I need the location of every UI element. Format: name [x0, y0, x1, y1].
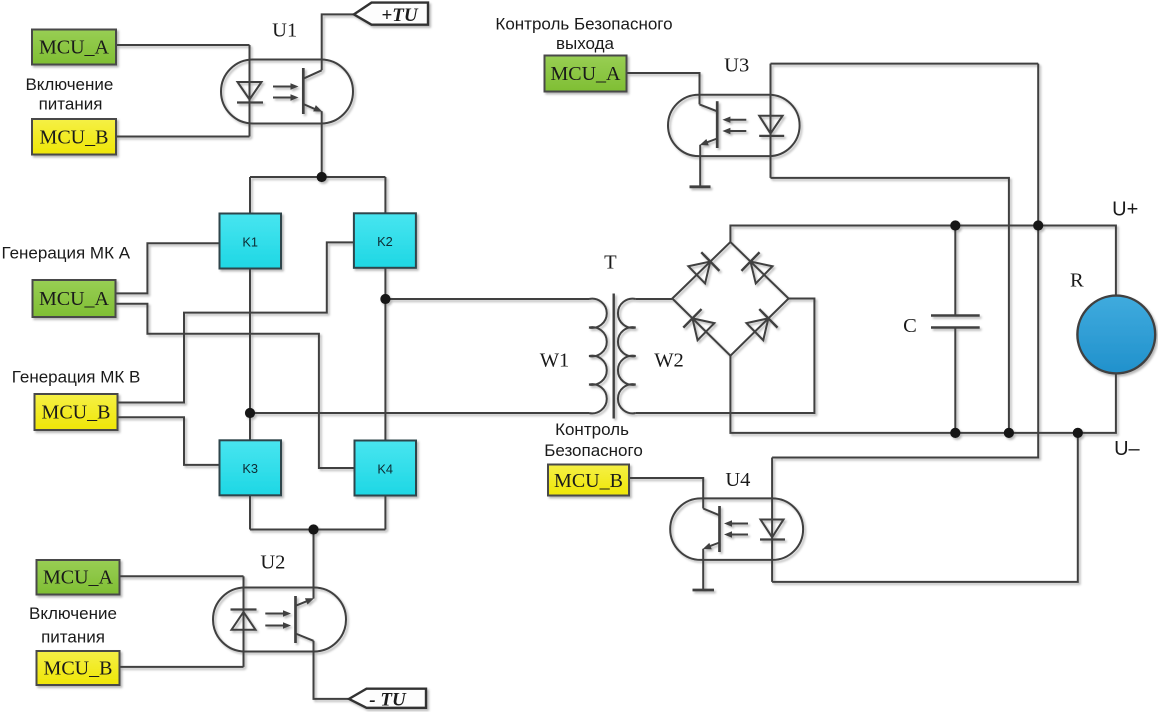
svg-text:питания: питания: [39, 95, 103, 114]
wire U3 top sense from U+: [771, 63, 1039, 65]
switch K1: [220, 214, 282, 269]
arrowhead U3 light 2: [722, 128, 730, 134]
diode U1 LED cathode bar: [237, 101, 263, 103]
op-amp U4 optocoupler body: [670, 498, 803, 560]
arrowhead U1 light 2: [291, 94, 299, 100]
arrowhead U4 light 1: [724, 520, 732, 526]
svg-text:C: C: [903, 315, 917, 337]
arrowhead U2 light 1: [283, 610, 291, 616]
svg-text:MCU_A: MCU_A: [39, 288, 110, 310]
svg-text:U+: U+: [1112, 199, 1138, 221]
svg-text:Контроль Безопасного: Контроль Безопасного: [495, 15, 672, 34]
svg-text:U–: U–: [1114, 438, 1140, 460]
diode U2 LED: [232, 612, 256, 630]
svg-text:Включение: Включение: [25, 75, 113, 94]
op-amp U2 optocoupler body: [213, 588, 346, 652]
wire K1 to K3 column: [249, 269, 251, 441]
wire U4 emitter to ground: [702, 549, 704, 590]
svg-text:MCU_A: MCU_A: [550, 63, 621, 85]
MCU_B box (U1 enable): [32, 119, 116, 155]
svg-text:U1: U1: [272, 20, 297, 42]
transformer T winding W2: [618, 299, 636, 414]
svg-text:U3: U3: [724, 55, 749, 77]
svg-text:MCU_B: MCU_B: [44, 658, 113, 680]
wire U4 LED cathode to U- rail: [772, 433, 1078, 582]
arrowhead U3 emitter: [698, 139, 708, 148]
transistor U3 emitter: [704, 139, 717, 144]
transistor U1 base bar: [302, 68, 305, 114]
MCU_A box (U1 enable): [32, 30, 116, 65]
wire U1 light arrow 1: [273, 86, 292, 88]
transformer T core: [613, 294, 615, 419]
wire capacitor top lead: [954, 226, 956, 316]
capacitor C bottom plate: [931, 326, 980, 328]
svg-text:W1: W1: [540, 350, 570, 372]
wire bottom rail to U2 emitter: [313, 530, 315, 599]
wire U1 light arrow 2: [273, 97, 292, 99]
wire MCU_B gen to K3 control: [117, 417, 220, 465]
node junction U1 emitter / top rail: [317, 172, 327, 182]
switch K4: [355, 441, 417, 496]
svg-text:T: T: [604, 252, 617, 274]
MCU_A box (U2 enable): [37, 560, 120, 595]
wire U4 light arrow 1: [730, 523, 749, 525]
wire U2 collector to -TU flag: [314, 641, 350, 699]
ground bar U4: [693, 589, 715, 592]
svg-text:выхода: выхода: [556, 34, 615, 53]
svg-text:K3: K3: [242, 461, 258, 476]
MCU_A box (generation A): [33, 280, 116, 317]
resistor R load circle: [1077, 296, 1155, 374]
diode U3 LED: [759, 116, 782, 134]
transistor U1 emitter: [303, 104, 317, 110]
arrowhead U4 light 2: [724, 531, 732, 537]
svg-text:+TU: +TU: [381, 5, 418, 26]
wire U2 light arrow 1: [265, 613, 284, 615]
svg-text:U2: U2: [260, 552, 285, 574]
transistor U2 base bar: [294, 596, 297, 643]
transistor U1 collector: [303, 70, 321, 78]
diode U4 LED: [761, 520, 784, 538]
node -TU flag: [349, 689, 426, 708]
capacitor C top plate: [931, 314, 980, 316]
MCU_B box (U4 sense): [548, 465, 629, 496]
wire U2 LED vertical: [243, 576, 245, 667]
arrowhead U4 emitter: [701, 543, 711, 552]
MCU_A box (U3 sense): [545, 56, 627, 92]
wire U3 emitter to ground: [699, 145, 701, 187]
svg-text:K1: K1: [242, 235, 258, 250]
wire K4 bottom pin: [384, 496, 386, 530]
wire MCU_B to U2 LED cathode: [120, 666, 244, 668]
wire MCU_B to U1 LED cathode: [116, 136, 250, 138]
wire top rail K1-K2: [250, 176, 385, 178]
svg-text:Включение: Включение: [29, 604, 117, 623]
diode U4 LED cathode bar: [760, 538, 785, 540]
node junction U+ rail / capacitor: [950, 220, 960, 230]
wire bottom rail K3-K4: [250, 529, 385, 531]
diode U1 LED: [238, 82, 262, 100]
wire capacitor bottom lead: [954, 328, 956, 433]
diode bridge diamond: [672, 242, 788, 356]
svg-text:R: R: [1070, 270, 1084, 292]
svg-text:MCU_B: MCU_B: [554, 470, 623, 492]
node junction U- rail / U4 return: [1073, 428, 1083, 438]
wire U1 LED vertical: [249, 45, 251, 137]
wire K2-K4 tap to W1 top: [385, 298, 589, 300]
wire U2 light arrow 2: [265, 625, 284, 627]
transistor U3 collector: [700, 104, 718, 111]
wire MCU_A gen to K4 control: [116, 304, 355, 468]
transistor U4 base bar: [718, 506, 721, 552]
wire MCU_A to U1 LED anode: [116, 44, 250, 46]
svg-text:K4: K4: [377, 462, 393, 477]
svg-text:Безопасного: Безопасного: [544, 441, 643, 460]
node junction bottom rail / U2: [308, 524, 318, 534]
wire U3 LED anode vertical: [770, 64, 772, 178]
op-amp U3 optocoupler body: [668, 95, 800, 156]
arrowhead U1 light 1: [291, 83, 299, 89]
wire U3 light arrow 1: [728, 119, 746, 121]
MCU_B box (U2 enable): [37, 651, 120, 685]
diode U3 LED cathode bar: [759, 135, 784, 137]
svg-text:MCU_A: MCU_A: [43, 567, 114, 589]
wire K1-K3 tap to W1 bottom: [250, 412, 589, 414]
diode D4 bottom-right: [746, 309, 778, 341]
wire MCU_A to U3 collector: [627, 73, 700, 104]
wire K3 bottom pin: [249, 495, 251, 529]
wire bridge top corner to U+ rail and R top: [730, 226, 1116, 296]
wire U1 emitter down to top rail: [321, 111, 323, 177]
node junction U- rail / U3 return: [1004, 428, 1014, 438]
wire MCU_B gen to K2 control: [117, 242, 354, 402]
arrowhead U3 light 1: [722, 117, 730, 123]
svg-text:Генерация МК В: Генерация МК В: [12, 368, 141, 387]
wire sense vertical to U4: [772, 64, 1038, 458]
svg-text:U4: U4: [725, 469, 750, 491]
wire U3 LED cathode to U- rail: [771, 178, 1009, 433]
wire W2 top to bridge left corner: [636, 298, 673, 300]
transistor U2 emitter: [296, 600, 310, 606]
wire W2 bottom to bridge right corner: [636, 299, 815, 414]
wire U4 light arrow 2: [730, 534, 749, 536]
diode D2 top-right: [741, 252, 773, 284]
svg-text:Контроль: Контроль: [555, 420, 629, 439]
wire MCU_A gen to K1 control: [116, 243, 220, 293]
svg-text:Генерация МК А: Генерация МК А: [2, 244, 131, 263]
wire U4 LED vertical: [771, 458, 773, 582]
diode U2 LED cathode bar: [231, 608, 257, 610]
switch K3: [220, 440, 282, 495]
switch K2: [354, 213, 416, 267]
wire K2 to K4 column: [384, 268, 386, 441]
op-amp U1 optocoupler body: [221, 60, 353, 124]
diode D1 top-left: [688, 252, 720, 284]
arrowhead U2 emitter: [305, 595, 315, 604]
wire K1 top pin: [249, 177, 251, 214]
svg-text:MCU_A: MCU_A: [39, 37, 110, 59]
svg-text:MCU_B: MCU_B: [42, 402, 111, 424]
node junction K2-K4 / W1 top: [380, 294, 390, 304]
transformer T winding W1: [589, 299, 607, 414]
wire MCU_B to U4 collector: [629, 478, 704, 509]
diode D3 bottom-left: [683, 309, 715, 341]
wire U3 light arrow 2: [728, 130, 746, 132]
transistor U2 collector: [296, 634, 314, 641]
transistor U4 collector: [703, 509, 719, 516]
transistor U4 emitter: [707, 543, 720, 548]
wire bridge bottom corner to U- rail and R bottom: [730, 356, 1116, 433]
node junction K1-K3 / W1 bottom: [245, 408, 255, 418]
wire MCU_A to U2 LED anode: [120, 575, 244, 577]
svg-text:K2: K2: [377, 234, 393, 249]
svg-text:питания: питания: [41, 628, 105, 647]
arrowhead U2 light 2: [283, 622, 291, 628]
node junction U+ rail / sense line: [1033, 220, 1043, 230]
MCU_B box (generation B): [35, 394, 118, 430]
arrowhead U1 emitter: [313, 105, 324, 115]
transistor U3 base bar: [716, 101, 719, 148]
svg-text:MCU_B: MCU_B: [40, 127, 109, 149]
wire U1 collector to +TU flag: [322, 14, 354, 70]
wire K2 top pin: [384, 177, 386, 214]
node +TU flag: [354, 3, 428, 25]
node junction U- rail / capacitor: [950, 428, 960, 438]
ground bar U3: [690, 185, 711, 188]
svg-text:W2: W2: [654, 350, 684, 372]
svg-text:- TU: - TU: [369, 689, 407, 710]
